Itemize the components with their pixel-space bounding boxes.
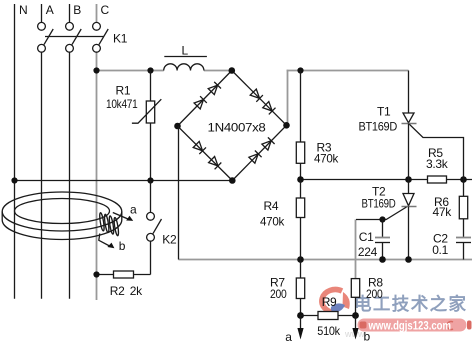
svg-text:a: a (285, 330, 292, 344)
svg-text:200: 200 (270, 287, 287, 301)
svg-text:N: N (19, 3, 27, 17)
svg-text:b: b (119, 239, 126, 253)
svg-text:www.dgjs123.com: www.dgjs123.com (368, 321, 451, 333)
svg-text:2k: 2k (130, 284, 143, 298)
svg-text:B: B (73, 3, 81, 17)
svg-text:C: C (101, 3, 110, 17)
svg-text:510k: 510k (317, 324, 341, 338)
svg-text:L: L (182, 44, 189, 58)
svg-text:R1: R1 (116, 83, 131, 97)
svg-text:10k471: 10k471 (106, 97, 138, 111)
svg-text:BT169D: BT169D (359, 119, 398, 133)
svg-text:1N4007x8: 1N4007x8 (208, 120, 267, 134)
svg-text:R9: R9 (322, 295, 337, 309)
svg-text:3.3k: 3.3k (426, 157, 449, 171)
svg-text:0.1: 0.1 (432, 243, 448, 257)
svg-text:T1: T1 (377, 105, 391, 119)
svg-text:470k: 470k (314, 151, 339, 165)
svg-text:K1: K1 (113, 32, 128, 46)
svg-text:C1: C1 (359, 230, 374, 244)
svg-text:R2: R2 (110, 284, 125, 298)
svg-text:a: a (130, 202, 137, 216)
svg-text:R4: R4 (264, 199, 279, 213)
svg-text:b: b (364, 330, 371, 344)
svg-text:K2: K2 (162, 233, 177, 247)
svg-text:47k: 47k (433, 205, 453, 219)
svg-text:470k: 470k (260, 215, 285, 229)
svg-text:200: 200 (366, 287, 383, 301)
svg-text:BT169D: BT169D (362, 197, 397, 211)
svg-text:A: A (46, 3, 54, 17)
svg-text:224: 224 (358, 245, 378, 259)
